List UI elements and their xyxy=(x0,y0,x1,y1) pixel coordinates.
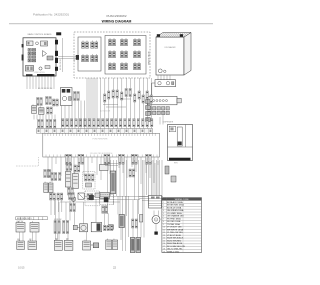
wire bundle center xyxy=(87,78,97,129)
svg-text:W-BK WH-BLACK: W-BK WH-BLACK xyxy=(167,237,184,240)
plug row left P4 xyxy=(38,120,40,129)
ice maker side face xyxy=(184,33,191,76)
svg-text:1: 1 xyxy=(163,202,164,204)
switch S4 xyxy=(91,222,101,231)
switch S3 xyxy=(30,221,39,232)
wire right verticals xyxy=(149,161,159,208)
connector J6 left xyxy=(22,44,24,47)
coil L12 xyxy=(134,50,141,58)
svg-text:SHIELD GND: SHIELD GND xyxy=(167,251,180,253)
defrost relay box xyxy=(61,88,73,106)
connector J4 right xyxy=(55,58,58,63)
terminal strip xyxy=(37,129,153,134)
dashed door boundary xyxy=(16,157,38,166)
svg-text:GN GREEN 18GA: GN GREEN 18GA xyxy=(167,209,184,212)
coil L9 xyxy=(121,50,128,58)
coil L11 xyxy=(134,38,141,46)
compressor motor xyxy=(152,216,160,224)
ground lug xyxy=(154,232,157,235)
svg-text:BK OR BU RD WH: BK OR BU RD WH xyxy=(38,88,53,90)
connector stub left of box A xyxy=(76,55,79,60)
svg-text:22: 22 xyxy=(113,265,117,269)
switch S5 xyxy=(17,240,25,250)
terminal board box xyxy=(43,133,160,157)
plug cluster G xyxy=(54,221,56,234)
wire left cluster drops xyxy=(34,115,55,120)
svg-text:10: 10 xyxy=(163,227,165,229)
plug cluster E xyxy=(68,188,70,196)
svg-text:15: 15 xyxy=(163,240,165,242)
thermostat pair xyxy=(44,182,48,193)
plug cluster C xyxy=(85,174,87,181)
ice maker hinge left xyxy=(157,34,160,37)
header rule xyxy=(9,23,213,25)
svg-text:GN-YL GRN-YEL: GN-YL GRN-YEL xyxy=(167,249,183,251)
lamp DS1 xyxy=(71,197,76,202)
plug P12 xyxy=(53,99,55,106)
svg-text:10/15: 10/15 xyxy=(18,265,25,269)
svg-text:LIGHT SW: LIGHT SW xyxy=(16,221,24,223)
wire bus to compressor xyxy=(139,197,163,201)
row A plug tall xyxy=(70,204,72,212)
main board triangle D1 xyxy=(43,51,47,57)
coil L13 xyxy=(134,62,141,70)
connector J8 bottom xyxy=(37,74,55,76)
main board cap C1 xyxy=(36,42,39,45)
svg-text:13: 13 xyxy=(163,235,165,237)
plug cluster F xyxy=(129,169,131,177)
svg-text:9: 9 xyxy=(163,224,164,226)
svg-text:BK WH OR RD: BK WH OR RD xyxy=(60,58,62,70)
overload protector xyxy=(119,215,124,228)
svg-text:19: 19 xyxy=(163,251,165,253)
dashed enclosure xyxy=(74,32,150,78)
svg-text:DISPENSER: DISPENSER xyxy=(163,122,174,124)
main board transformer T1 xyxy=(26,66,34,72)
switch S10 xyxy=(106,239,112,250)
svg-text:ICE MAKER: ICE MAKER xyxy=(164,46,176,49)
plug cluster D xyxy=(44,170,46,178)
dispenser divider xyxy=(185,125,187,148)
plug P1 xyxy=(37,98,39,106)
svg-text:VT VIOLET 18G: VT VIOLET 18G xyxy=(167,227,182,229)
ice maker motor M1 xyxy=(158,69,162,73)
main board outline xyxy=(23,38,56,76)
plug row above strip xyxy=(62,119,153,127)
svg-text:TN TAN 18GA: TN TAN 18GA xyxy=(167,223,180,226)
svg-text:3: 3 xyxy=(163,207,164,209)
sensor dashed box xyxy=(100,195,114,205)
ice maker hinge right xyxy=(180,34,183,37)
right small glyphs xyxy=(165,166,176,182)
box H xyxy=(100,193,110,199)
wire right singles xyxy=(105,78,152,129)
svg-text:BK BLACK 18GA: BK BLACK 18GA xyxy=(167,201,183,204)
svg-text:17: 17 xyxy=(163,246,165,248)
svg-text:WH WHITE 18GA: WH WHITE 18GA xyxy=(167,228,184,231)
coil L7 xyxy=(109,62,116,70)
plug P8 xyxy=(66,154,68,164)
svg-text:YL YELLOW 18G: YL YELLOW 18G xyxy=(167,232,183,234)
switch S7 xyxy=(54,239,62,250)
sub box B outline xyxy=(105,36,146,75)
plug P7 xyxy=(74,92,76,101)
svg-text:P1 P2 P3 P4 P5 P6: P1 P2 P3 P4 P5 P6 xyxy=(93,139,108,141)
row A plugs 3 xyxy=(102,206,104,214)
connector J5 right xyxy=(55,67,58,71)
svg-text:11: 11 xyxy=(163,229,165,231)
svg-text:BR BROWN 18GA: BR BROWN 18GA xyxy=(167,204,184,207)
wire board to valve box xyxy=(58,38,76,72)
svg-text:BK BR OR RD WH YL: BK BR OR RD WH YL xyxy=(17,218,32,220)
svg-text:8: 8 xyxy=(163,221,164,223)
coil L1 xyxy=(82,41,89,49)
plug P11 xyxy=(146,154,148,164)
dispenser board outline xyxy=(168,125,193,161)
plug cluster A xyxy=(51,173,53,181)
svg-text:14: 14 xyxy=(163,238,165,240)
row A glyph xyxy=(87,194,89,201)
door connector pins xyxy=(150,100,168,102)
defrost heater bars xyxy=(65,170,71,187)
row A plugs 1 xyxy=(50,193,52,200)
plug P10 xyxy=(132,154,134,164)
svg-text:6: 6 xyxy=(163,216,164,218)
svg-text:RD RED 18GA: RD RED 18GA xyxy=(167,220,181,223)
plug cluster H xyxy=(63,221,65,234)
run capacitor xyxy=(140,215,143,223)
row B color code strip xyxy=(16,217,48,221)
svg-text:GY GRAY 18GA: GY GRAY 18GA xyxy=(167,212,182,215)
thermistor RT1 xyxy=(32,104,37,113)
row A plugs 2 xyxy=(69,193,71,200)
svg-text:12: 12 xyxy=(163,232,165,234)
ice maker top hatch xyxy=(158,33,188,37)
plug cluster B xyxy=(66,164,68,171)
dispenser inner switch xyxy=(169,126,175,132)
plug P9b xyxy=(119,154,121,164)
heater R1 xyxy=(110,171,116,194)
connector J2 right xyxy=(55,40,58,45)
motor M2 xyxy=(80,224,88,232)
switch S9 xyxy=(83,240,91,250)
svg-text:WATER VALVE: WATER VALVE xyxy=(147,50,150,64)
plug P8b xyxy=(78,154,80,164)
water valve tall V2 xyxy=(136,238,141,253)
svg-text:2: 2 xyxy=(163,205,164,207)
sensor dashed box 1 xyxy=(85,191,100,206)
sensor glyph 1 xyxy=(89,195,94,200)
terminal block grid xyxy=(148,107,169,115)
plug P2 xyxy=(46,97,48,105)
plug row left P5 xyxy=(46,120,48,129)
svg-text:LT BU LT BLUE: LT BU LT BLUE xyxy=(167,235,182,237)
coil L5 xyxy=(109,38,116,46)
svg-text:WIRING DIAGRAM: WIRING DIAGRAM xyxy=(102,20,132,24)
wire mid-left verticals xyxy=(20,199,109,242)
connector J7 left xyxy=(22,55,24,61)
svg-text:PHSC239DW2: PHSC239DW2 xyxy=(106,14,126,18)
wire compressor xyxy=(154,211,159,232)
wire to dispenser xyxy=(160,110,163,125)
svg-text:W-BU WH-BLUE: W-BU WH-BLUE xyxy=(167,243,183,245)
wire long drops right xyxy=(108,160,163,222)
wire lower mid verticals xyxy=(123,196,138,251)
dispenser solenoid xyxy=(177,127,182,146)
svg-text:Publication No. 242292301: Publication No. 242292301 xyxy=(33,13,69,17)
water valve tall V1 xyxy=(130,238,135,253)
wire P7 drops xyxy=(65,101,78,129)
svg-text:J10: J10 xyxy=(74,59,76,62)
ice maker front face xyxy=(156,37,184,75)
main board relay K1 xyxy=(27,41,34,46)
wire horizontal runs xyxy=(60,197,148,203)
coil L6 xyxy=(109,50,116,58)
svg-text:1 2 3 4 5 6 7 8 9: 1 2 3 4 5 6 7 8 9 xyxy=(34,72,45,74)
wire ice maker down xyxy=(158,75,170,80)
coil L4 xyxy=(91,54,98,62)
tie lines cluster xyxy=(103,99,131,107)
connector J1 top-right xyxy=(56,32,61,35)
wire board bottom drops xyxy=(27,76,54,89)
wire upper band extra verticals xyxy=(62,78,101,129)
main board IC U2 xyxy=(47,56,53,60)
coil L8 xyxy=(121,38,128,46)
coil L3 xyxy=(82,54,89,62)
row A drops xyxy=(51,200,73,216)
svg-text:7: 7 xyxy=(163,218,164,220)
svg-text:18: 18 xyxy=(163,249,165,251)
svg-text:OR ORANGE 18G: OR ORANGE 18G xyxy=(167,215,184,218)
door connector box xyxy=(148,96,178,104)
svg-text:5: 5 xyxy=(163,213,164,215)
main board cap C2 xyxy=(39,67,42,70)
row A switch box xyxy=(78,193,84,199)
svg-text:W-RD WH-RED: W-RD WH-RED xyxy=(167,240,182,242)
plug row left P6 xyxy=(54,120,56,129)
plug row lower xyxy=(104,225,106,231)
switch S6 xyxy=(28,240,37,250)
main board relay K2 xyxy=(41,41,48,46)
svg-text:16: 16 xyxy=(163,243,165,245)
fill motor symbols xyxy=(158,82,161,85)
terminal board pins xyxy=(45,133,157,157)
wire right-mid verticals xyxy=(87,160,145,241)
cluster C glyph xyxy=(86,183,92,187)
lamp box I xyxy=(73,225,77,230)
connector J9 bottom xyxy=(26,74,33,76)
coil L10 xyxy=(121,62,128,70)
compressor relay block xyxy=(149,196,162,209)
coil L2 xyxy=(91,41,98,49)
svg-text:W-YL WH-YELLOW: W-YL WH-YELLOW xyxy=(167,246,185,248)
box G xyxy=(100,165,109,171)
relay K3 xyxy=(91,243,99,248)
fill motor box xyxy=(155,80,176,87)
svg-text:WIRING CODE: WIRING CODE xyxy=(175,199,189,201)
connector J3 right xyxy=(55,51,58,56)
plug P3 xyxy=(47,107,49,114)
svg-text:MAIN CONTROL BOARD: MAIN CONTROL BOARD xyxy=(28,33,52,36)
switch S8 xyxy=(64,239,73,250)
thermostat dashed box xyxy=(83,172,95,190)
main board IC U3 xyxy=(45,66,50,69)
plug P9 xyxy=(104,154,106,164)
wire terminal board drops xyxy=(48,157,158,184)
fuse F1 xyxy=(104,225,113,229)
plug row mid xyxy=(104,89,153,104)
switch S2 xyxy=(16,221,25,232)
switch S11 xyxy=(112,239,117,250)
wire bus lower horizontals xyxy=(105,164,118,166)
main board relay bank xyxy=(28,49,36,62)
ptc relay glyphs xyxy=(132,219,134,228)
svg-text:PK PINK 18GA: PK PINK 18GA xyxy=(167,217,181,220)
ice maker top face xyxy=(156,33,191,38)
sub box A outline xyxy=(78,37,101,71)
wire fill motor left xyxy=(152,83,155,96)
wire color legend table xyxy=(162,198,202,254)
row A small box xyxy=(95,193,100,197)
svg-text:BU BLUE 18GA: BU BLUE 18GA xyxy=(167,206,182,209)
svg-text:4: 4 xyxy=(163,210,164,212)
door connector tab xyxy=(177,98,181,103)
svg-text:DOOR SW: DOOR SW xyxy=(54,219,62,221)
resistor stack xyxy=(146,100,151,122)
dispenser heater bar xyxy=(169,158,191,161)
svg-text:1 2 3 4 5 6 7 8: 1 2 3 4 5 6 7 8 xyxy=(100,111,110,113)
thermistor RT2 xyxy=(39,106,45,114)
